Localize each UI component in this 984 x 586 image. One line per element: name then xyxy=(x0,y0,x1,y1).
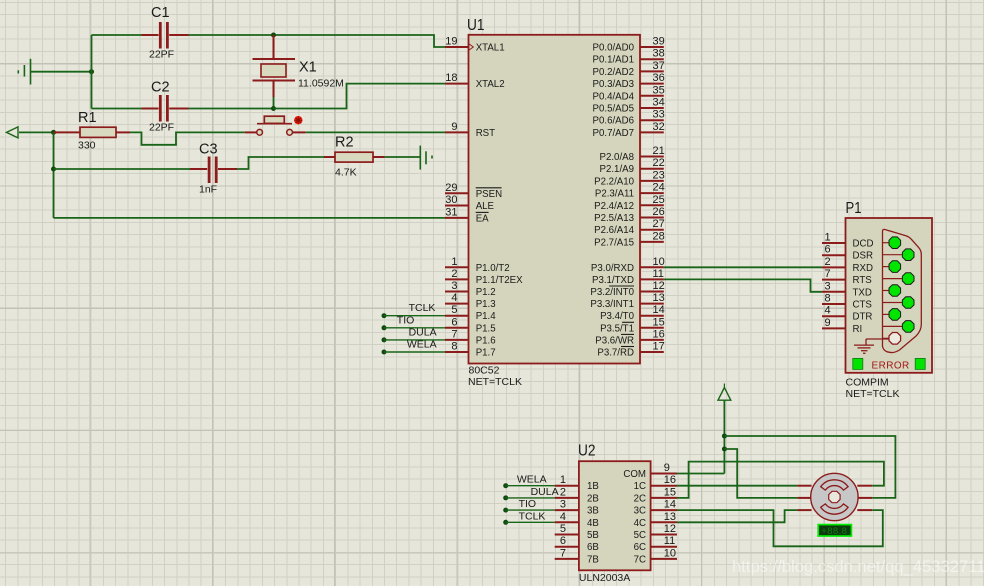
wire node to XTAL2 xyxy=(274,84,446,109)
wire gnd to node xyxy=(31,71,92,73)
U1 pin 39 P0.0/AD0 xyxy=(593,36,665,54)
svg-text:4C: 4C xyxy=(634,518,646,529)
U1 pin 29 PSEN xyxy=(445,182,502,200)
U1 pin 12 P3.2/INT0 xyxy=(590,280,664,298)
wire X1 to node xyxy=(273,97,275,109)
svg-text:6: 6 xyxy=(560,535,566,547)
DB9 pin 2 xyxy=(889,261,901,273)
svg-text:ULN2003A: ULN2003A xyxy=(579,572,630,584)
wire vertical xyxy=(91,35,93,109)
U1 pin 7 P1.6 xyxy=(445,328,496,346)
wire power to U2 COM xyxy=(677,473,724,475)
svg-text:P1.7: P1.7 xyxy=(476,348,496,359)
wire button to RST xyxy=(306,131,445,133)
svg-text:P2.6/A14: P2.6/A14 xyxy=(594,225,634,236)
svg-text:COM: COM xyxy=(623,469,646,480)
DB9 pin 3 xyxy=(889,285,901,297)
wire terminal to node xyxy=(19,131,54,133)
svg-text:DTR: DTR xyxy=(853,312,873,323)
U2 pin 7 7B xyxy=(555,547,599,565)
svg-text:P3.0/RXD: P3.0/RXD xyxy=(591,263,634,274)
U2 pin 1 1B xyxy=(555,474,599,492)
U1 pin 23 P2.2/A10 xyxy=(594,169,665,187)
svg-text:4B: 4B xyxy=(587,518,599,529)
U1 pin 21 P2.0/A8 xyxy=(600,145,665,163)
svg-text:XTAL2: XTAL2 xyxy=(476,79,505,90)
svg-text:RI: RI xyxy=(853,324,863,335)
ground xyxy=(420,146,432,170)
net label WELA xyxy=(503,474,555,489)
U1 pin 5 P1.4 xyxy=(445,304,496,322)
svg-text:330: 330 xyxy=(78,140,96,152)
svg-text:35: 35 xyxy=(653,84,665,96)
svg-text:RTS: RTS xyxy=(853,275,873,286)
U1 pin 22 P2.1/A9 xyxy=(600,157,665,175)
DB9 pin 9 xyxy=(902,321,914,333)
svg-text:RXD: RXD xyxy=(853,263,873,274)
U1 pin 26 P2.5/A13 xyxy=(594,206,665,224)
svg-text:11.0592M: 11.0592M xyxy=(298,78,344,90)
U1 pin 34 P0.5/AD5 xyxy=(593,97,665,115)
wire power to motor left-center xyxy=(724,449,797,498)
U2 pin 4 4B xyxy=(555,511,599,529)
U1 pin 25 P2.4/A12 xyxy=(594,194,665,212)
svg-text:16: 16 xyxy=(653,328,665,340)
svg-text:1C: 1C xyxy=(634,481,646,492)
svg-text:27: 27 xyxy=(653,218,665,230)
svg-text:31: 31 xyxy=(445,206,457,218)
svg-text:3B: 3B xyxy=(587,506,599,517)
U1 pin 19 XTAL1 xyxy=(445,36,505,54)
svg-text:P0.0/AD0: P0.0/AD0 xyxy=(593,43,635,54)
svg-text:P2.1/A9: P2.1/A9 xyxy=(600,164,634,175)
svg-text:4: 4 xyxy=(560,511,566,523)
svg-text:32: 32 xyxy=(653,121,665,133)
U1 pin 35 P0.4/AD4 xyxy=(593,84,665,102)
svg-text:2B: 2B xyxy=(587,493,599,504)
svg-text:TXD: TXD xyxy=(853,287,872,298)
svg-text:23: 23 xyxy=(653,169,665,181)
svg-text:P1.2: P1.2 xyxy=(476,287,496,298)
DB9 pin 5 xyxy=(889,333,901,345)
junction xyxy=(722,434,727,439)
svg-text:U1: U1 xyxy=(467,17,485,34)
wire to C2 xyxy=(92,108,142,110)
svg-text:4: 4 xyxy=(825,305,831,317)
svg-text:P3.3/INT1: P3.3/INT1 xyxy=(590,299,634,310)
U1 pin 32 P0.7/AD7 xyxy=(593,121,665,139)
svg-text:7B: 7B xyxy=(587,554,599,565)
DB9 pin 6 xyxy=(902,249,914,261)
wire P3.0 to RXD xyxy=(664,266,822,268)
svg-text:13: 13 xyxy=(664,511,676,523)
U1 pin 37 P0.2/AD2 xyxy=(593,60,665,78)
svg-text:P1.6: P1.6 xyxy=(476,335,496,346)
svg-text:16: 16 xyxy=(664,474,676,486)
svg-text:EA: EA xyxy=(476,213,489,224)
svg-text:R2: R2 xyxy=(335,135,354,151)
U2 pin 2 2B xyxy=(555,486,599,504)
U1 pin 36 P0.3/AD3 xyxy=(593,72,665,90)
net label WELA xyxy=(382,339,446,355)
junction xyxy=(89,69,94,74)
P1 pin 2 RXD xyxy=(822,256,873,274)
svg-text:5: 5 xyxy=(451,304,457,316)
DB9 pin 8 xyxy=(902,297,914,309)
svg-text:P2.7/A15: P2.7/A15 xyxy=(594,237,634,248)
DB9 pin 1 xyxy=(889,237,901,249)
power terminal xyxy=(718,388,731,401)
svg-text:P2.2/A10: P2.2/A10 xyxy=(594,176,634,187)
wire 2C to motor right-top xyxy=(677,462,884,498)
svg-text:DCD: DCD xyxy=(853,239,874,250)
button actuate marker xyxy=(294,116,302,124)
svg-text:7C: 7C xyxy=(634,554,646,565)
svg-text:24: 24 xyxy=(653,182,665,194)
svg-text:DULA: DULA xyxy=(531,486,559,498)
svg-text:9: 9 xyxy=(664,462,670,474)
svg-text:6C: 6C xyxy=(634,542,646,553)
U1 pin 24 P2.3/A11 xyxy=(595,182,665,200)
P1 pin 9 RI xyxy=(822,317,862,335)
svg-text:21: 21 xyxy=(653,145,665,157)
svg-text:30: 30 xyxy=(445,194,457,206)
wire C1 to XTAL1 xyxy=(189,35,446,47)
U1 pin 38 P0.1/AD1 xyxy=(593,48,665,66)
svg-text:2C: 2C xyxy=(634,493,646,504)
DB9 shell xyxy=(883,229,922,352)
svg-text:34: 34 xyxy=(653,97,665,109)
U2 pin 6 6B xyxy=(555,535,599,553)
svg-text:P2.3/A11: P2.3/A11 xyxy=(595,189,634,200)
capacitor C1 xyxy=(142,5,189,61)
svg-text:ALE: ALE xyxy=(476,201,495,212)
ground xyxy=(854,339,889,353)
svg-text:14: 14 xyxy=(653,304,665,316)
svg-text:7: 7 xyxy=(560,547,566,559)
svg-text:37: 37 xyxy=(653,60,665,72)
svg-text:2: 2 xyxy=(451,268,457,280)
svg-text:P3.6/WR: P3.6/WR xyxy=(595,335,634,346)
wire 4C to motor left-bottom xyxy=(677,510,797,522)
svg-text:22PF: 22PF xyxy=(149,49,174,61)
wire R1 to button xyxy=(130,132,245,144)
svg-text:C1: C1 xyxy=(151,5,170,21)
U2 pin 10 7C xyxy=(634,547,677,565)
capacitor C2 xyxy=(142,80,189,134)
svg-text:ERROR: ERROR xyxy=(872,360,910,371)
svg-text:WELA: WELA xyxy=(517,474,547,486)
resistor R1 xyxy=(54,110,131,152)
U2 pin 15 2C xyxy=(634,486,677,504)
svg-text:+88.8: +88.8 xyxy=(821,526,847,537)
wire vertical to EA xyxy=(53,132,55,218)
svg-text:P2.0/A8: P2.0/A8 xyxy=(600,152,634,163)
svg-text:C2: C2 xyxy=(151,80,170,96)
svg-text:X1: X1 xyxy=(299,60,317,76)
U1 pin 3 P1.2 xyxy=(445,280,496,298)
svg-text:2: 2 xyxy=(560,486,566,498)
svg-text:P0.4/AD4: P0.4/AD4 xyxy=(593,91,635,102)
svg-text:8: 8 xyxy=(451,341,457,353)
wire 1C to motor left-top xyxy=(677,485,797,487)
ERROR indicator squares xyxy=(853,358,863,369)
P1 pin 8 CTS xyxy=(822,293,872,311)
wire C2 to node xyxy=(189,108,274,110)
U2 pin 3 3B xyxy=(555,499,599,517)
svg-text:1: 1 xyxy=(451,256,457,268)
svg-text:6: 6 xyxy=(451,316,457,328)
U2 pin 14 3C xyxy=(634,499,677,517)
svg-text:P0.1/AD1: P0.1/AD1 xyxy=(593,55,634,66)
junction xyxy=(271,106,276,111)
svg-text:11: 11 xyxy=(653,268,664,280)
U1 pin 18 XTAL2 xyxy=(445,72,505,90)
svg-text:7: 7 xyxy=(825,268,831,280)
svg-text:6: 6 xyxy=(825,244,831,256)
wire to C1 xyxy=(92,34,142,36)
P1 pin 7 RTS xyxy=(822,268,872,286)
svg-text:P0.3/AD3: P0.3/AD3 xyxy=(593,79,634,90)
U1 pin 28 P2.7/A15 xyxy=(594,230,665,248)
U1 pin 11 P3.1/TXD xyxy=(592,268,664,286)
svg-text:5C: 5C xyxy=(634,530,646,541)
U1 pin 9 RST xyxy=(445,121,495,139)
svg-text:28: 28 xyxy=(653,230,665,242)
svg-text:4.7K: 4.7K xyxy=(335,167,357,179)
DB9 pin 7 xyxy=(902,273,914,285)
svg-text:P3.1/TXD: P3.1/TXD xyxy=(592,275,634,286)
svg-text:P1.3: P1.3 xyxy=(476,299,496,310)
svg-text:P1.1/T2EX: P1.1/T2EX xyxy=(476,275,523,286)
U1 pin 10 P3.0/RXD xyxy=(591,256,665,274)
svg-text:1: 1 xyxy=(825,232,831,244)
svg-text:TIO: TIO xyxy=(397,314,415,326)
wire P3.1 to TXD xyxy=(664,279,822,291)
svg-text:10: 10 xyxy=(664,547,676,559)
svg-text:5B: 5B xyxy=(587,530,599,541)
svg-text:8: 8 xyxy=(825,293,831,305)
svg-text:1nF: 1nF xyxy=(199,184,217,196)
svg-text:R1: R1 xyxy=(78,110,97,126)
svg-text:TCLK: TCLK xyxy=(519,510,546,522)
U1 pin 4 P1.3 xyxy=(445,292,496,310)
svg-text:17: 17 xyxy=(653,341,665,353)
svg-text:P3.5/T1: P3.5/T1 xyxy=(600,323,634,334)
svg-text:12: 12 xyxy=(664,523,676,535)
svg-text:3: 3 xyxy=(560,499,566,511)
DB9 pin connector lines xyxy=(883,242,895,244)
U1 pin 2 P1.1/T2EX xyxy=(445,268,523,286)
U1 pin 13 P3.3/INT1 xyxy=(590,292,664,310)
svg-text:P0.6/AD6: P0.6/AD6 xyxy=(593,116,634,127)
svg-text:7: 7 xyxy=(451,328,457,340)
U1 pin 6 P1.5 xyxy=(445,316,496,334)
U1 pin 15 P3.5/T1 xyxy=(600,316,665,334)
svg-text:P0.2/AD2: P0.2/AD2 xyxy=(593,67,634,78)
U1 pin 1 P1.0/T2 xyxy=(445,256,510,274)
net label TIO xyxy=(382,314,446,330)
U2 pin 9 COM xyxy=(623,462,677,480)
U2 pin 11 6C xyxy=(634,535,677,553)
U1 pin 17 P3.7/RD xyxy=(597,341,664,359)
svg-text:3: 3 xyxy=(825,280,831,292)
U1 pin 27 P2.6/A14 xyxy=(594,218,665,236)
svg-text:11: 11 xyxy=(664,535,675,547)
svg-text:1B: 1B xyxy=(587,481,599,492)
svg-text:P3.7/RD: P3.7/RD xyxy=(597,348,634,359)
svg-text:NET=TCLK: NET=TCLK xyxy=(468,376,522,388)
junction xyxy=(51,130,56,135)
svg-text:22: 22 xyxy=(653,157,665,169)
svg-text:TCLK: TCLK xyxy=(409,302,436,314)
svg-text:5: 5 xyxy=(560,523,566,535)
svg-text:36: 36 xyxy=(653,72,665,84)
stepper motor xyxy=(797,473,872,520)
P1 pin 4 DTR xyxy=(822,305,872,323)
DB9 pin 4 xyxy=(889,309,901,321)
crystal X1 xyxy=(253,35,344,97)
svg-text:P0.5/AD5: P0.5/AD5 xyxy=(593,104,634,115)
junction xyxy=(271,33,276,38)
P1 pin 6 DSR xyxy=(822,244,873,262)
svg-text:4: 4 xyxy=(451,292,457,304)
svg-text:P3.4/T0: P3.4/T0 xyxy=(600,311,635,322)
svg-text:2: 2 xyxy=(825,256,831,268)
svg-text:6B: 6B xyxy=(587,542,599,553)
svg-text:RST: RST xyxy=(476,128,495,139)
svg-text:1: 1 xyxy=(560,474,566,486)
motor display +88.8 xyxy=(818,525,851,537)
svg-text:9: 9 xyxy=(451,121,457,133)
net label TCLK xyxy=(382,302,446,318)
U1 pin 31 EA xyxy=(445,206,489,224)
wire 3C to motor right-bottom xyxy=(677,510,883,546)
ground xyxy=(18,59,30,85)
svg-text:TIO: TIO xyxy=(519,498,537,510)
resistor R2 xyxy=(324,135,385,179)
svg-text:38: 38 xyxy=(653,48,665,60)
svg-text:22PF: 22PF xyxy=(149,122,174,134)
wire C3 to R2 xyxy=(237,157,324,169)
op U2 ULN2003A xyxy=(578,443,651,585)
push button xyxy=(245,116,306,135)
svg-text:33: 33 xyxy=(653,109,665,121)
svg-text:9: 9 xyxy=(825,317,831,329)
U1 pin 16 P3.6/WR xyxy=(595,328,665,346)
svg-text:P1.5: P1.5 xyxy=(476,323,496,334)
svg-text:C3: C3 xyxy=(199,142,218,158)
svg-text:25: 25 xyxy=(653,194,665,206)
svg-text:26: 26 xyxy=(653,206,665,218)
svg-text:14: 14 xyxy=(664,499,676,511)
U1 pin 14 P3.4/T0 xyxy=(600,304,665,322)
svg-text:PSEN: PSEN xyxy=(476,189,502,200)
U2 pin 12 5C xyxy=(634,523,677,541)
capacitor C3 xyxy=(190,142,237,196)
svg-text:29: 29 xyxy=(445,182,457,194)
svg-text:P2.5/A13: P2.5/A13 xyxy=(594,213,634,224)
wire node to EA xyxy=(54,217,446,219)
svg-text:DULA: DULA xyxy=(409,326,437,338)
svg-text:39: 39 xyxy=(653,36,665,48)
svg-text:CTS: CTS xyxy=(853,300,873,311)
input terminal xyxy=(7,127,19,138)
svg-text:P2.4/A12: P2.4/A12 xyxy=(594,201,634,212)
svg-text:15: 15 xyxy=(664,486,676,498)
U2 pin 13 4C xyxy=(634,511,677,529)
svg-text:12: 12 xyxy=(653,280,665,292)
svg-text:80C52: 80C52 xyxy=(469,365,500,377)
svg-text:15: 15 xyxy=(653,316,665,328)
wire R2 to ground xyxy=(385,156,421,158)
svg-text:10: 10 xyxy=(653,256,665,268)
net label DULA xyxy=(503,486,558,501)
U1 pin 8 P1.7 xyxy=(445,341,496,359)
U1 pin 33 P0.6/AD6 xyxy=(593,109,665,127)
junction xyxy=(51,167,56,172)
svg-text:19: 19 xyxy=(445,36,457,48)
svg-text:P1.4: P1.4 xyxy=(476,311,497,322)
svg-text:P0.7/AD7: P0.7/AD7 xyxy=(593,128,634,139)
wire power vertical xyxy=(723,400,725,473)
net label TIO xyxy=(503,498,555,512)
junction xyxy=(722,447,727,452)
wire node to C3 xyxy=(54,168,191,170)
svg-text:P1.0/T2: P1.0/T2 xyxy=(476,263,510,274)
connector P1 COMPIM xyxy=(846,200,933,400)
op U1 80C52 microcontroller xyxy=(467,17,640,388)
net label TCLK xyxy=(503,510,555,525)
svg-text:WELA: WELA xyxy=(407,339,437,351)
P1 pin 3 TXD xyxy=(822,280,872,298)
svg-text:U2: U2 xyxy=(578,443,596,460)
svg-text:P1: P1 xyxy=(846,200,862,217)
svg-text:DSR: DSR xyxy=(853,251,873,262)
svg-text:3: 3 xyxy=(451,280,457,292)
svg-text:3C: 3C xyxy=(634,506,646,517)
svg-text:P3.2/INT0: P3.2/INT0 xyxy=(590,287,634,298)
wire power to motor right-center xyxy=(724,436,895,498)
svg-text:COMPIM: COMPIM xyxy=(846,377,889,389)
svg-text:18: 18 xyxy=(445,72,457,84)
P1 pin 1 DCD xyxy=(822,232,874,250)
svg-text:NET=TCLK: NET=TCLK xyxy=(846,388,900,400)
U1 pin 30 ALE xyxy=(445,194,495,212)
svg-text:13: 13 xyxy=(653,292,665,304)
svg-text:XTAL1: XTAL1 xyxy=(476,43,505,54)
svg-text:https://blog.csdn.net/qq_45332: https://blog.csdn.net/qq_45332711 xyxy=(732,557,984,576)
net label DULA xyxy=(382,326,446,342)
U2 pin 5 5B xyxy=(555,523,599,541)
U2 pin 16 1C xyxy=(634,474,677,492)
